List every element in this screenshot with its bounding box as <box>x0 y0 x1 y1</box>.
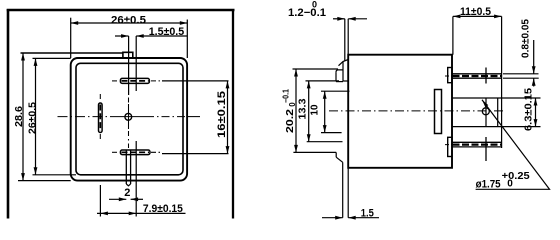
dim 7.9: dimension line under text <box>97 212 186 214</box>
top slot centerline right part <box>151 80 160 82</box>
pin 3 centerline <box>445 144 452 146</box>
center hole box inner vertical <box>485 98 487 127</box>
svg-text:0.8±0.05: 0.8±0.05 <box>521 19 532 58</box>
mounting tab plate left face <box>342 62 344 82</box>
pin 3 top edge <box>452 141 502 143</box>
dim 1.2: dimension line left segment <box>333 18 345 20</box>
dim 0.8: top extension line <box>503 73 539 75</box>
dim 13.3: bottom extension line <box>307 141 343 143</box>
frame border right <box>232 10 234 219</box>
dim 11: left extension <box>452 16 454 54</box>
tab foot top edge <box>336 70 343 72</box>
dim 10: top arrow <box>323 91 327 99</box>
dim 13.3: dimension line <box>308 81 310 142</box>
pin 3 crossing line <box>485 137 487 161</box>
svg-text:+0.25: +0.25 <box>502 171 530 182</box>
dim 1.5 top: dimension line right segment under text <box>136 35 187 37</box>
cover outline <box>348 55 452 168</box>
svg-text:26±0.5: 26±0.5 <box>111 15 146 27</box>
bottom pin tip <box>126 184 130 186</box>
dim 26 left: dimension line <box>35 58 37 174</box>
mounting tab bottom edge <box>343 80 348 82</box>
top slot interior dashes <box>122 80 149 82</box>
svg-text:26±0.5: 26±0.5 <box>27 102 38 134</box>
dim 26 top: dimension line <box>71 22 188 24</box>
horizontal centerline right part <box>146 116 187 118</box>
dim 6.3: dimension line <box>535 98 537 127</box>
dim 26 left: bottom extension line <box>33 174 77 176</box>
body outer outline <box>71 58 187 181</box>
dim 13.3: top extension line <box>306 80 340 82</box>
dim 6.3: top arrow <box>534 98 538 106</box>
tab foot bottom edge <box>336 81 343 83</box>
tab foot left face <box>335 72 337 81</box>
dim 28.6: top extension line (tab top) <box>21 52 123 54</box>
svg-text:7.9±0.15: 7.9±0.15 <box>143 203 183 215</box>
pin 1 interior dashes <box>453 75 502 77</box>
dim 16 right: top arrow <box>226 81 230 89</box>
svg-text:−0.1: −0.1 <box>282 89 291 103</box>
svg-text:1.5: 1.5 <box>361 208 374 220</box>
center hole box bottom <box>452 126 541 128</box>
dim 1.2: extension b <box>347 19 349 55</box>
svg-text:1.5±0.5: 1.5±0.5 <box>149 26 185 38</box>
left slot centerline lower part <box>99 134 101 140</box>
bottom slot centerline right part <box>151 151 160 153</box>
vertical centerline dash lower <box>128 131 130 148</box>
bottom pin left edge (side view) <box>342 162 344 217</box>
svg-text:13.3: 13.3 <box>298 98 309 119</box>
dim 10: bottom extension line <box>321 132 342 134</box>
dim 0.8: dimension line lower part <box>533 78 535 86</box>
svg-text:11±0.5: 11±0.5 <box>460 6 491 18</box>
dim 28.6: dimension line <box>22 53 24 181</box>
pin 3 bottom edge <box>452 146 502 148</box>
dim 1.2: right arrow <box>348 17 356 21</box>
frame border left <box>7 9 10 219</box>
dim 16 right: dimension line <box>227 81 229 154</box>
svg-text:20.2: 20.2 <box>285 108 296 133</box>
top slot centerline <box>112 80 119 82</box>
dim 2: left arrow <box>119 197 127 201</box>
dim 20.2: bottom extension line <box>293 151 336 153</box>
svg-text:28.6: 28.6 <box>14 106 25 127</box>
dim 26 top: extension left <box>70 18 72 58</box>
dim 20.2: dimension line <box>295 69 297 152</box>
horizontal centerline solid middle <box>112 116 146 118</box>
mounting tab chamfer <box>339 60 349 66</box>
dim 20.2: top extension line <box>293 68 339 70</box>
dim 11: right arrow <box>494 15 502 19</box>
svg-text:0: 0 <box>312 0 317 10</box>
dim 0.8: upper arrow <box>532 66 536 74</box>
top slot (pin hole) <box>120 78 149 83</box>
inner tall slot <box>435 90 442 134</box>
dim 7.9: left arrow <box>100 212 108 216</box>
dim 1.5 bottom: right arrow <box>348 216 356 220</box>
left slot interior dashes <box>99 105 101 132</box>
dim 6.3: bottom arrow <box>534 119 538 127</box>
left slot centerline <box>99 94 101 102</box>
dim 1.5 top: extension a (centerline) <box>128 36 130 95</box>
bottom slot interior dashes <box>122 151 150 153</box>
dim 26 top: extension right <box>186 20 188 59</box>
pin 1 centerline <box>445 75 452 77</box>
dim 26 top: left arrow <box>71 21 79 25</box>
dim 1.2: left arrow <box>337 17 345 21</box>
mounting tab (top) <box>123 52 133 58</box>
left slot (pin hole) <box>99 103 103 133</box>
frame border top <box>7 9 235 12</box>
bottom-left foot left face <box>335 152 337 157</box>
dim 26 left: bottom arrow <box>34 167 38 175</box>
bottom-left foot chamfer <box>336 157 343 162</box>
bottom pin left edge <box>125 150 127 184</box>
dim 1.5 top: left arrow <box>121 34 129 38</box>
dim 11: dimension line <box>453 15 502 17</box>
bottom pin right edge (side view) <box>347 167 349 217</box>
dim 0.8: dimension line upper part <box>533 40 535 74</box>
dim 2: right arrow <box>131 197 139 201</box>
pin 1 root block <box>448 68 452 83</box>
pin tips line <box>501 16 503 148</box>
dim 1.2: extension a <box>344 19 346 61</box>
dim 1.5 top: dimension line left segment <box>115 35 129 37</box>
dim 28.6: bottom extension line <box>18 180 71 182</box>
dim 13.3: top arrow <box>307 81 311 89</box>
dim 13.3: bottom arrow <box>307 134 311 142</box>
pin 1 bottom edge <box>452 77 502 79</box>
dim 2: dimension line right segment <box>131 198 143 200</box>
leader arrowhead <box>482 100 488 108</box>
bottom pin right edge <box>130 150 132 184</box>
dim 0.8: lower arrow <box>532 78 536 86</box>
svg-text:ø1.75: ø1.75 <box>476 178 501 190</box>
dim 26 left: top extension line <box>33 57 71 59</box>
dim 1.5 bottom: dimension line right segment under text <box>348 217 379 219</box>
dim 28.6: top arrow <box>21 53 25 61</box>
dim 20.2: top arrow <box>294 69 298 77</box>
bottom slot centerline <box>112 151 119 153</box>
center hole circle (left view) <box>125 113 132 120</box>
dim 11: left arrow <box>453 15 461 19</box>
leader line for hole diameter <box>476 100 550 190</box>
main horizontal centerline <box>329 110 504 112</box>
center hole box top <box>452 97 541 99</box>
dim 1.5 top: extension b (slot center) <box>135 36 137 91</box>
pin 3 root block <box>448 137 452 156</box>
vertical centerline dash upper <box>128 98 130 105</box>
svg-text:0: 0 <box>507 179 513 190</box>
dim 1.2: dimension line right segment <box>348 18 367 20</box>
horizontal centerline right solid end <box>187 116 200 118</box>
dim 10: top extension line <box>321 90 350 92</box>
dim 20.2: bottom arrow <box>294 145 298 153</box>
dim 1.5 bottom: left arrow <box>335 216 343 220</box>
bottom slot (pin hole) <box>120 150 150 155</box>
svg-text:16±0.15: 16±0.15 <box>216 91 228 138</box>
dim 16 right: bottom arrow <box>226 146 230 154</box>
dim 7.9: right arrow <box>129 212 137 216</box>
pin 1 top edge <box>452 73 502 75</box>
dim 7.9: left extension line <box>99 185 101 217</box>
dim 26 top: right arrow <box>180 21 188 25</box>
dim 28.6: bottom arrow <box>21 173 25 181</box>
dim 10: dimension line <box>324 91 326 132</box>
dim 26 left: top arrow <box>34 58 38 66</box>
dim 1.5 top: right arrow <box>136 34 144 38</box>
dim 0.8: bottom extension line <box>503 77 539 79</box>
center hole circle <box>482 108 489 115</box>
pin 3 interior dashes <box>453 143 502 145</box>
svg-text:10: 10 <box>310 104 321 115</box>
svg-text:2: 2 <box>124 187 130 199</box>
dim 16 right: top extension line <box>162 80 229 82</box>
body inner outline <box>76 63 183 175</box>
svg-text:6.3±0.15: 6.3±0.15 <box>524 88 535 131</box>
dim 16 right: bottom extension line <box>162 153 229 155</box>
center hole box right vertical <box>497 98 499 127</box>
dim 1.5 bottom: dimension line left segment <box>322 217 343 219</box>
dim 7.9: right extension line <box>135 141 137 217</box>
horizontal centerline left part <box>58 116 113 118</box>
pin 1 crossing line <box>485 68 487 84</box>
vertical centerline solid middle <box>128 104 130 129</box>
svg-text:1.2−0.1: 1.2−0.1 <box>288 7 326 19</box>
dim 2: dimension line left segment <box>109 198 126 200</box>
dim 10: bottom arrow <box>323 125 327 133</box>
